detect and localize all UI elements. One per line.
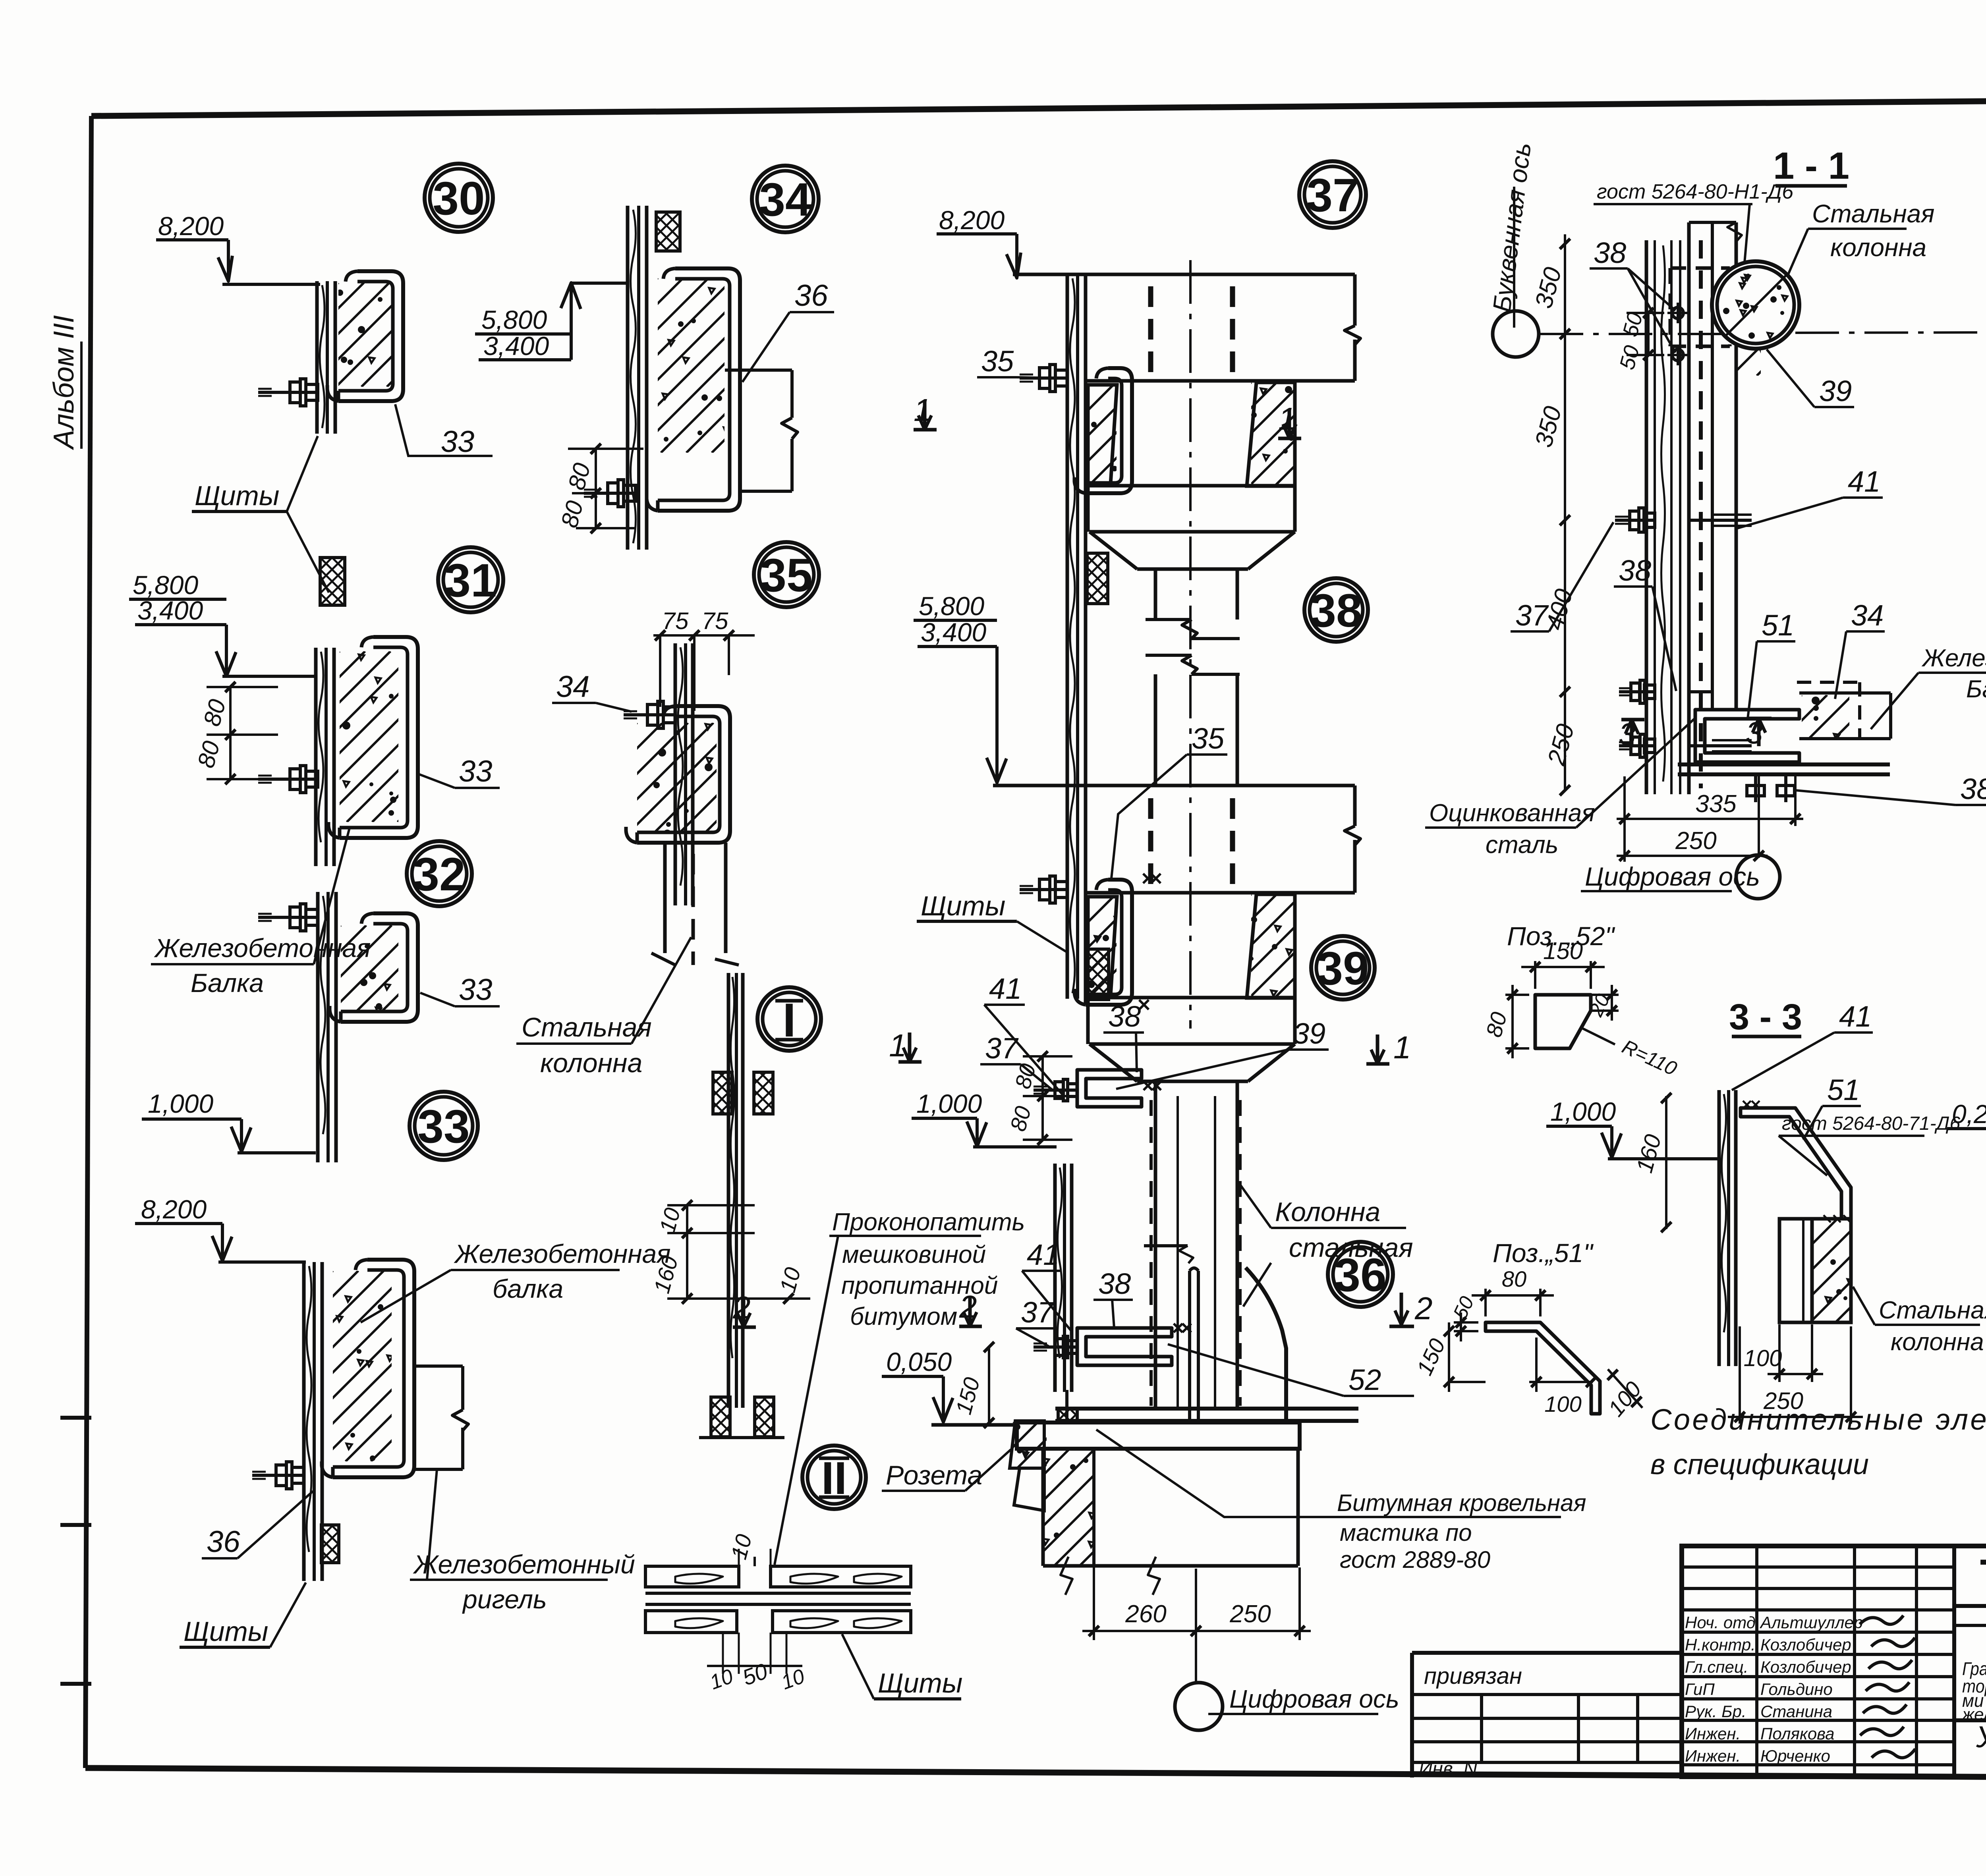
dims 10/50/10 below boards (722, 1633, 724, 1674)
svg-text:8,200: 8,200 (158, 211, 224, 241)
foundation top band (1017, 1422, 1300, 1449)
vertical dim chain 350/350/400/250 (section 1-1) (1564, 234, 1566, 790)
svg-text:Альбом III: Альбом III (48, 315, 80, 450)
beam height break line (detail 34) (725, 369, 792, 372)
svg-text:Щиты: Щиты (921, 890, 1005, 921)
svg-text:37: 37 (1515, 599, 1549, 632)
svg-text:1: 1 (889, 1028, 907, 1063)
column base plate (base) (1055, 1407, 1358, 1411)
svg-text:38: 38 (1619, 554, 1651, 587)
dim 260/250 (base) (1093, 1567, 1095, 1640)
svg-text:37: 37 (1306, 169, 1358, 222)
wall panel bottom (base) (1053, 1164, 1057, 1392)
svg-text:51: 51 (1762, 609, 1794, 642)
dim 50/50 (section 1-1) (1647, 313, 1650, 355)
svg-text:30: 30 (433, 172, 485, 225)
svg-text:Балка: Балка (1966, 676, 1986, 703)
wall panel (detail 31) (314, 648, 318, 866)
svg-text:Инв. N: Инв. N (1419, 1758, 1477, 1779)
svg-text:35: 35 (760, 549, 812, 602)
svg-text:Балка: Балка (191, 968, 264, 998)
svg-text:33: 33 (459, 755, 493, 788)
svg-text:150: 150 (1543, 938, 1583, 964)
girder band bottom edge (joint A) (1086, 379, 1355, 383)
svg-text:Железобетонный: Железобетонный (413, 1550, 635, 1579)
base haunch gusset (node 36) (1246, 1268, 1286, 1422)
svg-text:гост 2889-80: гост 2889-80 (1340, 1546, 1490, 1573)
through bolt upper (section 1-1) (1615, 519, 1655, 522)
svg-text:38: 38 (1098, 1267, 1131, 1300)
svg-text:39: 39 (1317, 942, 1369, 995)
steel strip 41 (section 1-1) (1711, 222, 1714, 711)
svg-text:100: 100 (1744, 1345, 1782, 1371)
svg-text:Полякова: Полякова (1760, 1724, 1835, 1743)
svg-text:Поз.„51": Поз.„51" (1493, 1238, 1594, 1268)
svg-text:Станина: Станина (1760, 1702, 1832, 1721)
svg-text:сталь: сталь (1486, 831, 1558, 859)
weld crosses (joint B) (1143, 874, 1153, 883)
svg-text:36: 36 (1334, 1249, 1386, 1301)
svg-text:41: 41 (1839, 1000, 1872, 1033)
beams soffit line (joint B) (1086, 996, 1295, 1000)
wall bracket at 1.000 (central) (1077, 1070, 1142, 1107)
svg-text:битумом: битумом (850, 1303, 957, 1330)
svg-text:250: 250 (1229, 1600, 1271, 1628)
svg-text:Цифровая ось: Цифровая ось (1229, 1685, 1399, 1713)
svg-text:Гл.спец.: Гл.спец. (1685, 1658, 1748, 1676)
dim 100 bottom (item 51) (1535, 1338, 1538, 1392)
detail circle 34 (752, 166, 819, 232)
weld marks bottom (section 3-3) (1824, 1215, 1831, 1222)
steel channel (detail 33) (333, 1260, 414, 1477)
item 52 plate outline (1535, 995, 1591, 1048)
svg-text:34: 34 (1851, 599, 1884, 632)
node circle II (802, 1446, 866, 1509)
svg-text:Розета: Розета (886, 1460, 982, 1490)
beam depth break line (detail 33) (414, 1365, 463, 1368)
binding block (privyazan) (1412, 1651, 1682, 1655)
svg-text:33: 33 (417, 1100, 469, 1153)
anchor bolt bar (node 36) (1188, 1271, 1191, 1421)
steel column below (detail 35), dashed hidden lines (663, 843, 667, 953)
svg-text:3,400: 3,400 (483, 331, 549, 361)
svg-text:37: 37 (1021, 1296, 1055, 1329)
anchor bolt (detail 34) (584, 492, 636, 495)
svg-text:Стальная: Стальная (1812, 199, 1934, 228)
steel channel (joint B) (1086, 880, 1132, 1005)
svg-text:0,050: 0,050 (886, 1347, 952, 1376)
svg-text:Н.контр.: Н.контр. (1685, 1635, 1756, 1654)
svg-text:1,000: 1,000 (916, 1089, 982, 1118)
detail circle 35 (754, 542, 819, 607)
horizontal board joint (node II plan) (645, 1566, 739, 1587)
svg-text:колонна: колонна (1830, 233, 1926, 262)
svg-text:ригель: ригель (462, 1585, 547, 1614)
svg-text:Узлы 30 ÷ 39: Узлы 30 ÷ 39 (1976, 1720, 1986, 1754)
horizontal axis line (sections) (1540, 333, 1740, 335)
wall panel (detail 34) (626, 206, 630, 550)
svg-text:Рук. Бр.: Рук. Бр. (1685, 1702, 1746, 1721)
svg-text:Щиты: Щиты (878, 1668, 962, 1698)
cut slash through pipe (section 1-1) (1726, 274, 1787, 336)
svg-text:1,000: 1,000 (148, 1089, 213, 1118)
gusset dashed square (section 1-1) (1670, 266, 1730, 270)
hidden edge dashed (section 1-1) (1699, 240, 1703, 788)
wall panel (detail 33) (302, 1262, 306, 1581)
anchor bolt (detail 32) (258, 916, 318, 919)
detail circle 30 (425, 164, 493, 232)
svg-text:Железобетонная: Железобетонная (154, 933, 371, 963)
svg-text:335: 335 (1695, 790, 1737, 818)
svg-text:Оцинкованная: Оцинкованная (1429, 799, 1595, 827)
concrete beam cut right (joint B) (1247, 894, 1295, 998)
svg-text:41: 41 (1848, 465, 1880, 498)
svg-text:38: 38 (1960, 772, 1986, 805)
bent bracket 51 (section 3-3) (1741, 1108, 1851, 1219)
svg-text:Юрченко: Юрченко (1760, 1747, 1830, 1765)
svg-text:36: 36 (207, 1525, 240, 1559)
svg-text:8,200: 8,200 (141, 1195, 207, 1224)
svg-text:5,800: 5,800 (133, 570, 198, 600)
svg-text:Инжен.: Инжен. (1685, 1747, 1741, 1765)
hidden flange edges dashed (node 36) (1149, 1100, 1153, 1406)
detail circle 33 (410, 1092, 478, 1160)
svg-text:Стальная: Стальная (1879, 1297, 1986, 1324)
angle seat & girder dashed (section 1-1) (1797, 681, 1860, 684)
dim 150 (item 52) (1534, 961, 1536, 989)
digital axis circle (central) (1175, 1683, 1223, 1730)
svg-text:41: 41 (989, 972, 1022, 1005)
svg-text:8,200: 8,200 (939, 205, 1005, 235)
leader from caulking note to board joint (775, 1236, 838, 1565)
svg-text:0,280: 0,280 (1952, 1099, 1986, 1129)
letter axis circle (1493, 311, 1539, 357)
wall bracket at base (central) (1077, 1328, 1172, 1365)
girder band bottom edge (joint B) (1086, 891, 1355, 895)
girder right break edge (joint B) (1353, 786, 1357, 826)
detail circle 36 (1328, 1242, 1393, 1307)
svg-text:3,400: 3,400 (921, 618, 986, 647)
dims 335 and 250 (section 1-1) (1623, 776, 1626, 862)
dim 100 (section 3-3) (1778, 1324, 1781, 1382)
dim 250 (section 3-3) (1739, 1326, 1741, 1424)
svg-text:3 - 3: 3 - 3 (1729, 997, 1802, 1037)
base plate (section 1-1) (1678, 762, 1890, 766)
svg-text:Битумная кровельная: Битумная кровельная (1337, 1490, 1586, 1516)
foundation body (1041, 1449, 1045, 1566)
svg-text:3,400: 3,400 (137, 596, 203, 625)
detail circle 32 (407, 841, 472, 906)
column capital (joint A) (1086, 486, 1090, 532)
column centre axis (1189, 260, 1192, 1029)
svg-text:привязан: привязан (1424, 1663, 1522, 1689)
leader and label 33 (detail 30) (395, 404, 493, 456)
steel channel 33 (detail 32) (341, 913, 418, 1022)
svg-text:39: 39 (1819, 374, 1852, 407)
through bolts lower (section 1-1) (1619, 690, 1655, 693)
svg-text:ТП 901- Б 85.86: ТП 901- Б 85.86 (1980, 1550, 1986, 1600)
svg-text:31: 31 (444, 554, 496, 607)
svg-text:Железобетонная: Железобетонная (454, 1239, 671, 1268)
top level line (joint B) (993, 784, 1355, 787)
anchor bolt (joint B) (1020, 888, 1067, 891)
anchor bolt (detail 33) (252, 1474, 304, 1477)
svg-text:250: 250 (1675, 827, 1716, 855)
shaft break marks (node 36) (1144, 1244, 1188, 1247)
dim 80 (item 52) (1505, 994, 1529, 996)
svg-text:100: 100 (1544, 1392, 1581, 1417)
column shaft below capital (joint A) (1154, 569, 1157, 620)
shaft break resume (joint B) (1146, 654, 1192, 657)
svg-text:33: 33 (459, 973, 493, 1007)
bolts below plate (section 1-1) (1754, 774, 1757, 802)
beams soffit line (joint A) (1086, 484, 1295, 488)
svg-text:Железобетонная: Железобетонная (1921, 645, 1986, 672)
anchor bolt (detail 30) (258, 391, 318, 394)
anchor bolt (detail 31) (258, 778, 318, 781)
svg-text:Стальная: Стальная (522, 1012, 652, 1042)
steel column shaft (below joint B) (1154, 1081, 1157, 1409)
svg-text:колонна: колонна (1891, 1328, 1984, 1356)
wall panel (detail 32) (316, 892, 320, 1162)
svg-text:38: 38 (1310, 585, 1362, 637)
svg-text:Соединительные элементы и д: Соединительные элементы и детали учтены (1650, 1403, 1986, 1436)
wall layers (section 1-1) (1645, 240, 1648, 794)
svg-text:2: 2 (1414, 1291, 1433, 1326)
document number cell (1954, 1604, 1986, 1608)
column shaft above girders (joint B) (1154, 674, 1157, 786)
dim 80 (item 51) (1484, 1289, 1487, 1316)
svg-text:Ноч. отд.: Ноч. отд. (1685, 1613, 1760, 1632)
item 51 bent plate outline (1486, 1322, 1600, 1414)
svg-text:Щиты: Щиты (195, 480, 279, 511)
steel channel 33 (detail 30) (338, 271, 403, 401)
svg-text:Цифровая ось: Цифровая ось (1585, 862, 1760, 891)
title block vertical dividers (left) (1755, 1546, 1758, 1777)
concrete beam cut right (joint A) (1247, 382, 1295, 486)
svg-text:гост 5264-80-71-Д6: гост 5264-80-71-Д6 (1782, 1113, 1960, 1134)
svg-text:38: 38 (1594, 236, 1626, 269)
sheet border frame (91, 98, 1986, 116)
svg-text:36: 36 (794, 279, 828, 313)
bolts in plan (section 1-1) (1672, 307, 1683, 318)
svg-text:Колонна: Колонна (1275, 1197, 1380, 1227)
rosette lower dotted piece (base) (1014, 1468, 1044, 1511)
svg-text:Альтшуллер: Альтшуллер (1759, 1613, 1863, 1632)
ground level line (base) (931, 1423, 1019, 1427)
svg-text:Щиты: Щиты (184, 1616, 268, 1647)
steel column hatched (section 3-3) (1812, 1219, 1851, 1322)
svg-text:1: 1 (1393, 1030, 1411, 1065)
svg-text:мастика по: мастика по (1340, 1519, 1472, 1546)
svg-text:51: 51 (1827, 1073, 1860, 1106)
svg-text:Гольдино: Гольдино (1760, 1680, 1833, 1698)
detail circle 38 (1304, 578, 1368, 642)
central wall panel (1066, 274, 1069, 999)
wood grain (boards) (675, 1574, 723, 1584)
node circle I (757, 987, 821, 1051)
svg-text:35: 35 (981, 345, 1014, 378)
svg-text:1,000: 1,000 (1550, 1097, 1616, 1126)
svg-text:мешковиной: мешковиной (842, 1241, 986, 1268)
svg-text:пропитанной: пропитанной (841, 1272, 998, 1299)
dim 20 (item 52) (1591, 994, 1619, 996)
steel channel (joint A) (1086, 368, 1132, 493)
detail circle 37 (1299, 161, 1366, 228)
svg-text:гост 5264-80-Н1-Д6: гост 5264-80-Н1-Д6 (1597, 180, 1793, 203)
anchor bolt at plate (base) (1065, 1390, 1068, 1421)
hidden column outline dashed (joint B) (1148, 798, 1153, 892)
steel channel 33 (detail 31) (340, 637, 418, 838)
svg-text:5,800: 5,800 (481, 305, 547, 334)
wall panel (detail 35) (674, 643, 677, 905)
svg-text:33: 33 (441, 425, 475, 459)
shaft break marks (joint A) (1146, 618, 1192, 621)
svg-text:75: 75 (662, 608, 689, 634)
wall panel (detail 30) (315, 281, 319, 434)
svg-text:37: 37 (985, 1032, 1019, 1065)
level line 8.200 (detail 30) (222, 283, 320, 286)
svg-text:Козлобичер: Козлобичер (1760, 1635, 1851, 1654)
svg-text:Инжен.: Инжен. (1685, 1724, 1741, 1743)
svg-text:32: 32 (413, 848, 465, 901)
top level line (joint A) (1013, 273, 1355, 276)
wall panel (section 3-3) (1717, 1090, 1721, 1366)
vertical panel joint (node I elevation) (727, 973, 730, 1408)
steel pipe column with concrete (section 1-1) (1712, 261, 1799, 349)
anchor bolt (joint A) (1020, 376, 1067, 380)
girder right break edge (joint A) (1353, 274, 1357, 326)
svg-text:34: 34 (556, 670, 590, 704)
hidden column outline dashed (joint A) (1148, 286, 1153, 380)
concrete beam cut left (joint A) (1088, 385, 1117, 484)
top break (section 1-1 wall) (1689, 221, 1736, 224)
concrete beam cut left (joint B) (1088, 897, 1117, 996)
svg-text:Проконопатить: Проконопатить (832, 1208, 1025, 1236)
svg-text:5,800: 5,800 (919, 591, 984, 621)
detail circle 31 (438, 547, 503, 612)
title block frame (1682, 1546, 1986, 1777)
svg-text:в спецификации: в спецификации (1650, 1449, 1869, 1480)
svg-text:ГиП: ГиП (1685, 1680, 1715, 1698)
svg-text:38: 38 (1108, 1000, 1141, 1033)
detail circle 39 (1311, 936, 1375, 1000)
column capital (joint B) (1086, 998, 1090, 1044)
svg-text:Козлобичер: Козлобичер (1760, 1658, 1851, 1676)
svg-text:34: 34 (759, 174, 811, 226)
digital axis circle (section 1-1) (1736, 855, 1780, 899)
svg-text:колонна: колонна (540, 1048, 642, 1078)
title block signature rows (1682, 1565, 1954, 1569)
base bracket (section 1-1) (1695, 710, 1799, 762)
anchor bolt (detail 35) (624, 713, 675, 716)
support block white (section 3-3) (1779, 1219, 1812, 1322)
steel channel (detail 35) (637, 706, 730, 843)
svg-text:балка: балка (493, 1274, 563, 1303)
foundation break marks (1061, 1557, 1072, 1595)
svg-text:260: 260 (1125, 1600, 1166, 1628)
steel channel 36 (detail 34) (658, 268, 740, 511)
left border fold ticks (60, 1416, 91, 1420)
svg-text:39: 39 (1293, 1017, 1325, 1050)
svg-text:80: 80 (1502, 1266, 1526, 1291)
svg-text:35: 35 (1192, 722, 1225, 755)
rosette hatched piece (base) (1010, 1421, 1044, 1468)
svg-text:75: 75 (702, 608, 728, 634)
svg-text:52: 52 (1348, 1363, 1381, 1396)
